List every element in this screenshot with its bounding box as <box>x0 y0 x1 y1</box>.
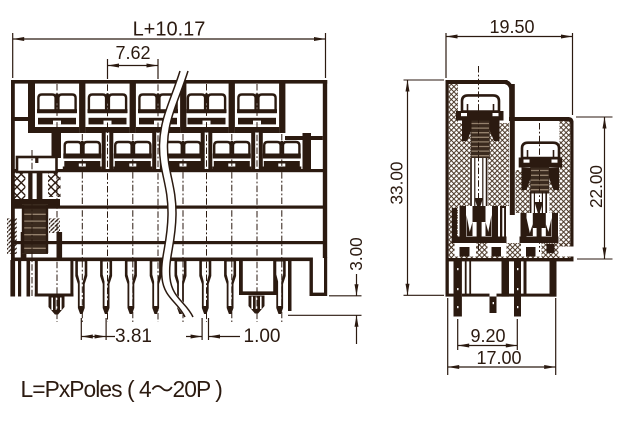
solder pins row <box>49 258 292 315</box>
svg-text:9.20: 9.20 <box>470 326 505 346</box>
svg-text:17.00: 17.00 <box>476 348 521 368</box>
front view right foot <box>310 258 328 297</box>
front view body outline <box>11 80 327 258</box>
tier-2 hatch flanks <box>516 170 560 213</box>
row-1 wire clamps <box>35 94 279 134</box>
tier-1 screw thread <box>462 119 500 159</box>
front view internal shelf lines <box>15 206 324 245</box>
svg-text:3.00: 3.00 <box>346 237 366 270</box>
side view left hatch column <box>449 84 458 250</box>
svg-text:L=PxPoles ( 4～20P ): L=PxPoles ( 4～20P ) <box>21 376 223 402</box>
left sectioned terminal clamp <box>17 156 57 172</box>
left section hatching <box>7 172 61 254</box>
break line <box>159 71 193 317</box>
tier-2 screw thread <box>522 168 560 194</box>
left bottom section block <box>10 260 73 297</box>
tier-1 screw head <box>456 95 504 120</box>
dimension L+10.17 <box>13 19 326 79</box>
front view bottom shelf <box>11 258 310 262</box>
row-2 partition chimneys <box>52 127 312 172</box>
svg-text:7.62: 7.62 <box>115 43 150 63</box>
side view shelf <box>446 258 574 261</box>
left section screw slot <box>13 172 60 206</box>
dimension 7.62 <box>108 43 159 79</box>
side view centerlines <box>479 66 540 252</box>
dimension 22.00 <box>576 117 613 259</box>
svg-text:3.81: 3.81 <box>115 326 152 347</box>
svg-text:L+10.17: L+10.17 <box>133 19 206 41</box>
side view bottom block <box>446 261 557 297</box>
left section screw thread <box>22 204 48 254</box>
tier-2 right hatch column <box>560 121 571 247</box>
svg-text:19.50: 19.50 <box>489 17 534 37</box>
dimension 33.00 <box>387 80 445 295</box>
tier-1 clamp cage <box>452 206 507 243</box>
side view pins <box>454 261 522 317</box>
tier-2 screw shaft <box>530 192 549 217</box>
dimension 19.50 <box>446 17 573 115</box>
tier-2 screw head <box>519 143 562 168</box>
svg-text:22.00: 22.00 <box>586 165 606 208</box>
tier-1 tower walls <box>510 84 515 215</box>
dimension 9.20 <box>458 319 518 350</box>
tier-2 clamp cage <box>520 213 559 243</box>
side view body outline <box>446 80 513 297</box>
tier-1 screw shaft <box>470 158 488 212</box>
tier-2 top plate <box>509 117 574 259</box>
row-2 wire clamps <box>63 141 301 172</box>
svg-text:1.00: 1.00 <box>244 326 281 347</box>
left section clamp bars <box>21 232 62 258</box>
dimension 3.81 <box>81 318 152 347</box>
dimension 17.00 <box>448 298 556 375</box>
svg-text:33.00: 33.00 <box>387 161 407 204</box>
front view row-1 terminal cavities <box>11 83 323 140</box>
front view centerlines <box>32 59 282 322</box>
dimension 1.00 <box>186 318 280 347</box>
row-2 floor band <box>15 169 324 172</box>
tier-1 hatch flanks <box>458 123 509 206</box>
side view bottom hatch band <box>449 243 574 259</box>
dimension 3.00 front <box>288 237 366 344</box>
